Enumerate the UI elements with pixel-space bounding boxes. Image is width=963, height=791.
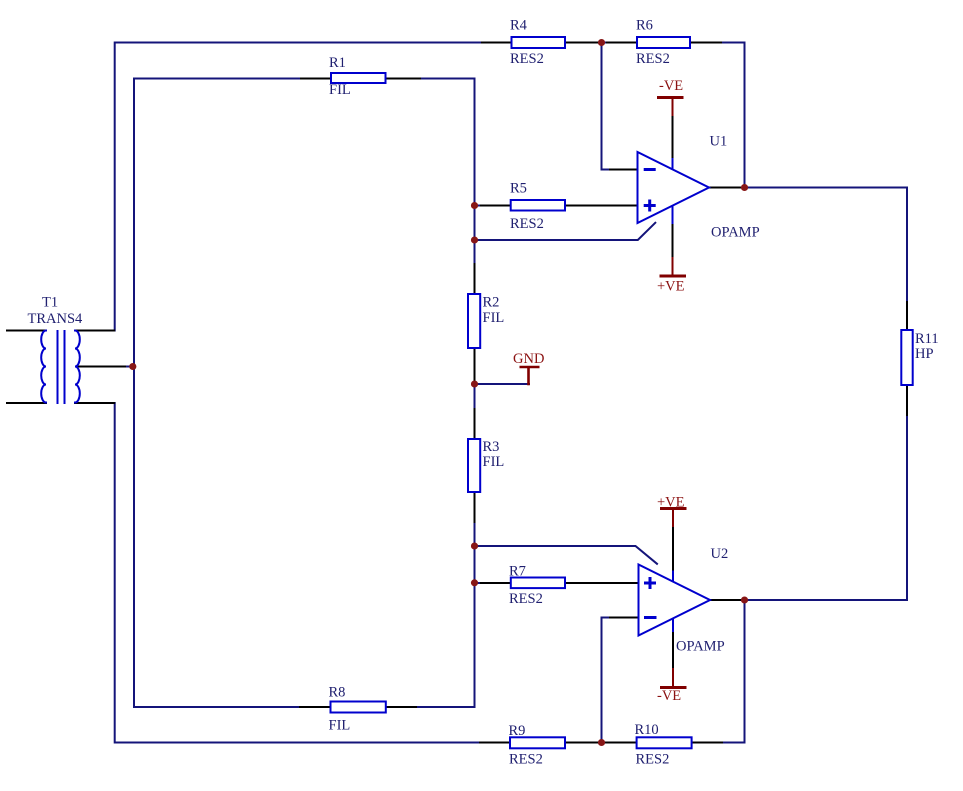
svg-text:R10: R10 bbox=[635, 722, 659, 738]
junction dot R5 row node bbox=[471, 202, 478, 209]
op-amp U1 output pin bbox=[709, 187, 740, 189]
wire feedback U1 from R4/R6 junction down to inverting input bbox=[602, 43, 615, 170]
op-amp U2 triangle bbox=[639, 565, 711, 636]
wire feedback U2 from R9/R10 junction up to inverting input bbox=[602, 618, 615, 743]
svg-text:R7: R7 bbox=[509, 564, 526, 580]
junction dot lower wire node bbox=[471, 237, 478, 244]
resistor R7 pins and U2 plus input pin bbox=[481, 582, 639, 584]
resistor R6 body bbox=[637, 37, 690, 48]
junction dot GND node bbox=[471, 381, 478, 388]
svg-text:R5: R5 bbox=[510, 181, 527, 197]
svg-text:-VE: -VE bbox=[657, 688, 681, 704]
power symbol -VE below U2 bbox=[660, 686, 687, 689]
wire transformer center tap to inner loop bbox=[120, 366, 133, 368]
resistor R2 pins bbox=[474, 264, 476, 380]
wire R5 row bbox=[475, 205, 639, 207]
op-amp U2 negative supply pin to -VE bbox=[672, 631, 674, 669]
wire U1 output right and down to R11 top bbox=[745, 188, 908, 303]
svg-text:FIL: FIL bbox=[329, 82, 351, 98]
svg-text:FIL: FIL bbox=[483, 310, 505, 326]
resistor R5 body bbox=[511, 200, 565, 211]
svg-text:RES2: RES2 bbox=[510, 216, 544, 232]
resistor R8 pins bbox=[300, 706, 416, 708]
resistor R3 pins bbox=[474, 409, 476, 522]
junction dot transformer center tap bbox=[129, 363, 136, 370]
wire R11 bottom down and left to U2 output node bbox=[745, 385, 908, 600]
resistor R6 pins bbox=[607, 42, 721, 44]
power symbol +VE above U2 bbox=[660, 507, 687, 510]
wire top outer run from R4/R6 row left down to transformer top lead bbox=[115, 43, 745, 331]
power symbol -VE above U1 bbox=[657, 96, 684, 99]
resistor R9 body bbox=[510, 737, 565, 748]
op-amp U2 plus symbol bbox=[644, 577, 656, 589]
wire right of R6 down to U1 output node bbox=[744, 43, 746, 188]
op-amp U1 positive supply pin to +VE bbox=[672, 223, 674, 258]
svg-text:-VE: -VE bbox=[659, 78, 683, 94]
junction dot R7 row node bbox=[471, 579, 478, 586]
svg-text:OPAMP: OPAMP bbox=[711, 225, 760, 241]
resistor R10 pins bbox=[606, 742, 722, 744]
transformer T1 right winding bbox=[75, 331, 80, 403]
svg-text:RES2: RES2 bbox=[509, 591, 543, 607]
resistor R11 pins bbox=[906, 302, 908, 415]
resistor R2 body bbox=[468, 294, 480, 348]
svg-text:U1: U1 bbox=[710, 134, 728, 150]
junction dot upper U2 wire node bbox=[471, 543, 478, 550]
wire center vertical through R2 R3 bbox=[474, 79, 476, 708]
svg-text:RES2: RES2 bbox=[510, 51, 544, 67]
svg-text:HP: HP bbox=[915, 346, 934, 362]
svg-text:RES2: RES2 bbox=[636, 751, 670, 767]
resistor R10 body bbox=[637, 737, 692, 748]
resistor R3 body bbox=[468, 439, 480, 492]
resistor R4 body bbox=[512, 37, 566, 48]
op-amp U1 triangle bbox=[638, 152, 710, 223]
svg-text:R2: R2 bbox=[483, 295, 500, 311]
svg-text:TRANS4: TRANS4 bbox=[28, 311, 84, 327]
svg-text:U2: U2 bbox=[711, 546, 729, 562]
junction dot R4/R6 node bbox=[598, 39, 605, 46]
wire with 45deg end above U2 bbox=[475, 546, 658, 564]
resistor R1 pins bbox=[301, 78, 420, 80]
svg-text:R11: R11 bbox=[915, 331, 939, 347]
op-amp U2 output pin bbox=[710, 599, 741, 601]
transformer T1 left winding bbox=[41, 331, 46, 403]
wire inner loop R1 row left, down, R8 row bbox=[134, 79, 475, 708]
op-amp U1 minus symbol bbox=[644, 168, 656, 171]
svg-text:RES2: RES2 bbox=[636, 51, 670, 67]
op-amp U1 negative supply pin to -VE bbox=[672, 115, 674, 159]
svg-text:FIL: FIL bbox=[483, 454, 505, 470]
power symbol GND bbox=[520, 366, 540, 369]
svg-text:R3: R3 bbox=[483, 439, 500, 455]
svg-text:T1: T1 bbox=[42, 295, 58, 311]
resistor R4 pins bbox=[482, 42, 597, 44]
transformer T1 right pins bbox=[75, 331, 125, 404]
junction dot U2 output node bbox=[741, 597, 748, 604]
svg-text:FIL: FIL bbox=[329, 718, 351, 734]
transformer T1 left pins bbox=[7, 331, 46, 404]
svg-text:GND: GND bbox=[513, 351, 544, 367]
resistor R7 body bbox=[511, 578, 565, 589]
op-amp U1 plus symbol bbox=[644, 200, 656, 212]
svg-text:RES2: RES2 bbox=[509, 751, 543, 767]
svg-text:R9: R9 bbox=[509, 723, 526, 739]
svg-text:R1: R1 bbox=[329, 55, 346, 71]
wire R7 row bbox=[475, 582, 639, 584]
resistor R9 pins bbox=[480, 742, 597, 744]
wire with 45deg end below U1 bbox=[475, 223, 656, 240]
resistor R8 body bbox=[331, 702, 386, 713]
svg-text:+VE: +VE bbox=[657, 495, 685, 511]
op-amp U2 inverting input pin bbox=[610, 617, 639, 619]
svg-text:R4: R4 bbox=[510, 18, 528, 34]
junction dot U1 output node bbox=[741, 184, 748, 191]
resistor R11 body bbox=[901, 330, 912, 385]
svg-text:R6: R6 bbox=[636, 18, 653, 34]
resistor R5 pins and U1 plus input pin bbox=[481, 205, 638, 207]
junction dot R9/R10 node bbox=[598, 739, 605, 746]
wire bottom outer run from transformer bottom lead down and right along R9/R10 row up to U2 output bbox=[115, 403, 745, 743]
wire GND row bbox=[475, 383, 530, 385]
svg-text:OPAMP: OPAMP bbox=[676, 638, 725, 654]
svg-text:+VE: +VE bbox=[657, 278, 685, 294]
op-amp U1 inverting input pin bbox=[610, 169, 638, 171]
power symbol +VE below U1 bbox=[660, 275, 687, 278]
resistor R1 body bbox=[331, 73, 386, 83]
op-amp U2 positive supply pin to +VE bbox=[672, 526, 674, 572]
svg-text:R8: R8 bbox=[329, 684, 346, 700]
op-amp U2 minus symbol bbox=[644, 616, 657, 619]
transformer T1 core lines bbox=[58, 331, 65, 403]
